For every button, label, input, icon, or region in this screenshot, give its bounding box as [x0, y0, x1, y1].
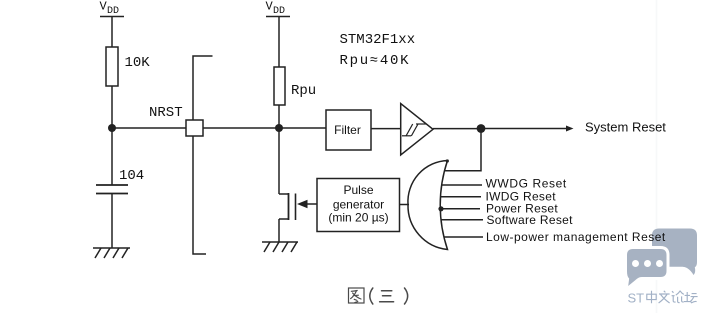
wire Q1 source to ground [278, 219, 280, 242]
wire node B to Q1 drain [278, 128, 280, 194]
arrowhead Q1 gate [297, 200, 308, 209]
glyph 坛 [684, 292, 698, 303]
glyph 三 [380, 291, 394, 302]
svg-text:DD: DD [107, 6, 119, 17]
glyph fullwidth left paren [370, 288, 373, 304]
resistor R1 10K [106, 47, 118, 86]
svg-text:Rpu≈40K: Rpu≈40K [340, 53, 411, 69]
watermark bubble dots [632, 260, 663, 267]
wire VDD left to R1 [111, 17, 113, 47]
pulse generator box [317, 179, 400, 232]
arrowhead System Reset [566, 126, 574, 132]
node B [275, 124, 283, 132]
svg-text:NRST: NRST [149, 105, 183, 121]
capacitor C1 104 [96, 185, 128, 194]
ground G1 [93, 248, 130, 258]
wire pulse generator to Q1 gate with arrow [307, 203, 317, 205]
OR gate [408, 161, 448, 250]
watermark bubble front [626, 247, 669, 288]
glyph fullwidth right paren [405, 288, 408, 304]
svg-text:DD: DD [273, 6, 285, 17]
svg-text:WWDG Reset: WWDG Reset [486, 177, 567, 191]
svg-text:Rpu: Rpu [291, 83, 316, 99]
ground G2 [262, 242, 298, 252]
svg-text:Filter: Filter [334, 123, 361, 137]
svg-text:Pulse: Pulse [343, 183, 373, 197]
svg-text:(min 20 µs): (min 20 µs) [328, 211, 388, 225]
wire VDD to Rpu [278, 17, 280, 67]
svg-text:System Reset: System Reset [585, 120, 666, 135]
caption: 图（三） hand drawn [349, 288, 408, 304]
svg-text:generator: generator [333, 198, 384, 212]
resistor Rpu [274, 67, 285, 105]
junction on OR gate edge [438, 206, 443, 211]
glyph 文 [659, 291, 670, 303]
wire IWDG input [441, 196, 482, 198]
wire Rpu to node B [278, 105, 280, 126]
svg-text:Software Reset: Software Reset [487, 213, 574, 227]
node C [477, 124, 486, 133]
power VDD left [100, 16, 124, 18]
faint page divider [656, 0, 658, 313]
wire OR gate output to pulse generator [400, 204, 410, 206]
wire node A to NRST pin [112, 127, 186, 129]
node A [108, 124, 116, 132]
junction gate top tip [446, 159, 449, 162]
power VDD center [266, 16, 290, 18]
wire NRST pin to node B / filter [203, 127, 326, 129]
glyph 中 [647, 291, 656, 303]
watermark text: ST中文论坛 [628, 291, 698, 306]
filter box [326, 110, 371, 150]
wire U1 to node C [433, 128, 481, 130]
svg-text:104: 104 [119, 168, 144, 184]
svg-text:10K: 10K [125, 55, 151, 71]
wire filter to U1 [371, 128, 401, 130]
svg-text:STM32F1xx: STM32F1xx [340, 32, 416, 48]
wire Power Reset input [440, 208, 480, 210]
hysteresis symbol [402, 124, 426, 136]
wire WWDG input [442, 184, 482, 186]
glyph 图 [349, 288, 365, 303]
op-amp U1 schmitt trigger [401, 104, 433, 156]
wire node C to System Reset arrow [481, 128, 570, 130]
svg-text:ST: ST [628, 291, 645, 306]
labels: serif/mono style [100, 0, 416, 184]
wire R1 to node A [111, 86, 113, 126]
wire C1 to ground [111, 194, 113, 249]
svg-text:Low-power management Reset: Low-power management Reset [486, 230, 666, 244]
wire node A to C1 [111, 128, 113, 185]
wire node C down to OR gate [444, 129, 481, 171]
wire Low-power input [444, 236, 483, 238]
watermark bubble back [652, 229, 697, 276]
NRST pin box [186, 120, 203, 136]
glyph 论 [672, 291, 684, 303]
chip boundary bracket [193, 56, 213, 254]
transistor Q1 [279, 193, 296, 220]
wire Software Reset input [441, 219, 483, 221]
